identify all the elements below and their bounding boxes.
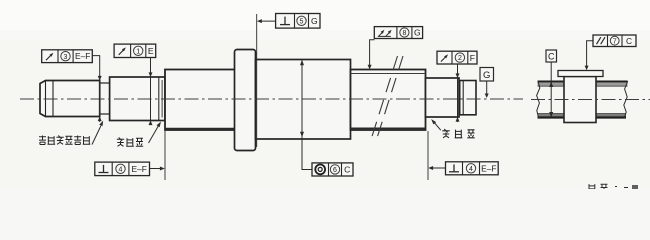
leader from frame 8 to screw surface: [368, 40, 375, 70]
label "component mounting area" (bujian anzhuang buwei): [39, 136, 90, 145]
leader arrow from right support label to right journal: [431, 119, 441, 130]
nut flange disc: [235, 50, 256, 151]
feature control frame 6: concentricity, (6), C: [312, 163, 353, 176]
detail centerline: [531, 99, 650, 101]
svg-text:7: 7: [613, 38, 617, 45]
svg-text:C: C: [548, 52, 555, 62]
clipped caption "unit: mm" bottom right: [588, 184, 638, 192]
svg-text:G: G: [483, 70, 490, 81]
svg-text:C: C: [344, 165, 350, 175]
detail shaft right break line: [624, 81, 628, 118]
svg-text:E–F: E–F: [75, 51, 90, 61]
leader arrow from frame 5 to flange face extension line: [257, 14, 276, 147]
svg-text:C: C: [626, 36, 632, 46]
svg-text:4: 4: [119, 166, 123, 173]
svg-text:5: 5: [300, 18, 304, 25]
detail view shaft (right): [538, 82, 628, 118]
svg-text:3: 3: [64, 54, 68, 61]
detail nut block: [564, 77, 596, 123]
screw body right segment: [351, 70, 426, 131]
long-break marks across screw body: [372, 56, 404, 138]
detail nut mounting plate: [558, 71, 603, 77]
feature control frame 5: perpendicularity, (5), G: [276, 14, 320, 29]
feature control frame 3: circular runout, (3), E-F: [42, 50, 93, 63]
label "support point" right: [442, 129, 474, 138]
leader from left frame 4 to shoulder extension line: [150, 131, 166, 180]
feature control frame 4 right: perpendicularity, (4), E-F: [446, 162, 499, 175]
leader from frame 6 with diameter arrows on nut body: [300, 60, 312, 170]
svg-text:G: G: [311, 16, 318, 26]
shaft journal 1 (component mounting journal, left end with chamfer): [40, 81, 100, 117]
feature control frame 2: circular runout, (2), F: [437, 51, 477, 64]
groove between journal 1 and journal 2: [100, 83, 110, 114]
nut body: [256, 60, 351, 140]
right end stub: [460, 81, 476, 115]
label "support point" left (zhichengdian): [117, 138, 143, 147]
leader from frame 3 with diameter arrows on journal 1: [92, 56, 101, 122]
svg-text:E–F: E–F: [132, 164, 147, 174]
leader from right frame 4 to shoulder extension line: [428, 131, 446, 180]
svg-text:2: 2: [458, 55, 462, 62]
detail shaft left break line: [537, 81, 540, 118]
leader arrow from label to journal 1: [92, 121, 103, 145]
screw body left segment: [165, 70, 236, 131]
shaft journal 2 (left support journal): [110, 77, 165, 121]
feature control frame 7: parallelism, (7), C: [593, 35, 636, 47]
feature control frame 8: total runout, (8), G: [374, 27, 422, 39]
leader arrow from left support label to journal 2: [149, 122, 162, 143]
svg-text:8: 8: [402, 30, 406, 37]
leader from frame 1 with diameter arrows on journal 2: [149, 58, 153, 126]
svg-text:6: 6: [333, 167, 337, 174]
datum G box with leader to centerline: [480, 68, 494, 99]
svg-text:F: F: [470, 53, 475, 63]
leader from frame 7 to nut mounting plate: [585, 41, 593, 70]
svg-text:G: G: [414, 28, 421, 38]
svg-text:1: 1: [136, 48, 140, 55]
right support journal: [426, 78, 460, 117]
svg-text:4: 4: [469, 166, 473, 173]
main centerline: [20, 98, 523, 100]
feature control frame 1: circular runout, (1), E: [114, 44, 156, 57]
feature control frame 4 left: perpendicularity, (4), E-F: [95, 162, 150, 176]
datum C box with diameter arrows on detail shaft: [546, 50, 557, 118]
svg-text:E–F: E–F: [481, 163, 496, 173]
leader from frame 2 with diameter arrows on right journal: [456, 64, 460, 122]
svg-text:E: E: [148, 46, 154, 56]
